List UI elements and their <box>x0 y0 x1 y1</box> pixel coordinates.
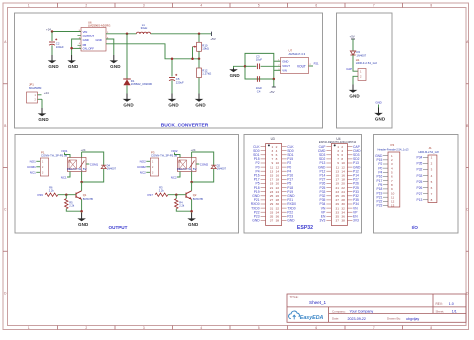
svg-text:3: 3 <box>143 326 145 330</box>
section box OUTPUT <box>15 135 239 234</box>
transistor Q1 BC547B <box>76 191 93 201</box>
net label NO1 at relay <box>62 149 70 158</box>
net label +24 relay supply <box>81 148 86 152</box>
svg-text:5: 5 <box>258 326 260 330</box>
svg-text:NC1: NC1 <box>30 171 36 175</box>
ground under Q1 <box>77 213 89 227</box>
junction base node <box>65 193 68 196</box>
svg-text:Your Company: Your Company <box>350 310 374 314</box>
wire pulldown to emitter <box>176 209 191 212</box>
ground under C2 <box>48 55 60 69</box>
ground under U6 left <box>67 55 79 69</box>
capacitor C2 100uF <box>49 38 64 48</box>
net label NC1 at relay <box>61 172 70 180</box>
svg-text:37: 37 <box>336 219 340 223</box>
wire +24 to U6 VIN <box>52 31 81 33</box>
svg-text:B: B <box>4 124 6 128</box>
svg-text:CONN-TH_3P-P5.08: CONN-TH_3P-P5.08 <box>151 154 178 158</box>
wire H1 pin2 to ground <box>353 76 358 84</box>
svg-text:ON_OFF: ON_OFF <box>83 47 95 51</box>
svg-text:EasyEDA: EasyEDA <box>300 315 324 321</box>
transistor Q2 BC547B <box>186 191 203 201</box>
svg-text:4: 4 <box>200 4 202 8</box>
wire base <box>168 194 186 196</box>
svg-text:AMS1117-3.3: AMS1117-3.3 <box>289 52 306 56</box>
svg-text:+5V: +5V <box>269 90 274 94</box>
header P4 Header-Female-2.54_1x13 <box>378 143 410 208</box>
net label P26 input <box>38 193 44 197</box>
section box ESP32 <box>244 135 362 234</box>
junction AMS gnd rail <box>244 65 247 68</box>
svg-text:MG25MM: MG25MM <box>29 86 42 90</box>
svg-text:TITLE:: TITLE: <box>290 295 299 299</box>
net label NC2 at relay <box>171 172 180 180</box>
svg-text:NC2: NC2 <box>171 175 177 179</box>
svg-text:2: 2 <box>85 326 87 330</box>
capacitor C5 220uF <box>169 74 184 84</box>
svg-text:1.27kΩ: 1.27kΩ <box>202 72 211 76</box>
connector P3 CONN-TH_3P-P5.08 <box>146 150 177 176</box>
svg-text:P27: P27 <box>148 193 154 197</box>
svg-text:HDR-F-2.54_1x2: HDR-F-2.54_1x2 <box>356 61 378 65</box>
net label COM2 at relay <box>196 162 209 166</box>
wire D3 to H1 pin1 <box>353 55 358 71</box>
svg-text:2.2k: 2.2k <box>179 203 185 207</box>
resistor R12 1.27k <box>197 68 212 78</box>
wire R12 bottom <box>198 78 200 94</box>
svg-text:GND: GND <box>375 117 386 122</box>
junction FB divider node <box>198 58 201 61</box>
svg-text:P34: P34 <box>417 156 423 160</box>
wire U7 VOUT to P21 <box>309 65 314 67</box>
header J1 HDR-M-2.54_1x8 <box>419 146 440 203</box>
junction emitter node <box>80 210 83 213</box>
net label CAP <box>346 67 352 71</box>
wire R12 top <box>198 59 200 68</box>
svg-text:VOUT: VOUT <box>282 64 290 68</box>
wire U6 right GND pin to ground <box>106 39 114 55</box>
connector H1 HDR-F-2.54_1x2 <box>356 58 378 81</box>
svg-text:COM2: COM2 <box>137 165 146 169</box>
svg-text:GND: GND <box>78 222 89 227</box>
svg-text:GND: GND <box>168 103 179 108</box>
svg-text:GND: GND <box>110 64 121 69</box>
svg-text:OUTPUT: OUTPUT <box>109 225 128 230</box>
wire C5 vertical <box>171 59 173 94</box>
junction +5V node <box>198 33 201 36</box>
svg-text:VIN: VIN <box>282 69 287 73</box>
svg-text:+5V: +5V <box>350 34 355 38</box>
wire emitter to ground <box>81 199 83 213</box>
connector P1 CONN-TH_3P-P5.08 <box>36 150 67 176</box>
svg-text:HDR-M-2.54_1x8: HDR-M-2.54_1x8 <box>419 150 440 154</box>
svg-text:3V3: 3V3 <box>320 219 326 223</box>
wire gnd arrow to C3 <box>245 65 256 67</box>
svg-text:BUCK_CONVERTER: BUCK_CONVERTER <box>161 122 209 128</box>
header U4 2x19 <box>319 137 357 225</box>
svg-text:Header-Female-2.54_1x13: Header-Female-2.54_1x13 <box>378 147 410 151</box>
title block <box>287 294 466 322</box>
svg-text:RELAY-TH_5V: RELAY-TH_5V <box>177 167 197 171</box>
svg-text:38: 38 <box>341 219 345 223</box>
svg-text:100uF: 100uF <box>56 45 64 49</box>
svg-text:P26: P26 <box>38 193 44 197</box>
ground under H1 <box>349 85 361 99</box>
regulator U6 LM2596S <box>79 20 111 51</box>
svg-text:B: B <box>466 124 468 128</box>
ground under JP1 <box>38 108 50 122</box>
ground under U6 right <box>110 55 122 69</box>
svg-text:GND: GND <box>48 64 59 69</box>
svg-text:4: 4 <box>200 326 202 330</box>
net label P27 input <box>148 193 154 197</box>
section box I/O <box>374 135 459 234</box>
svg-text:2.2k: 2.2k <box>69 203 75 207</box>
ground under D1 <box>123 94 135 108</box>
pin net labels U4 <box>318 145 361 223</box>
junction relay coil / collector <box>190 181 193 184</box>
wire AMS gnd rail loop <box>245 53 274 79</box>
wire pulldown to emitter <box>66 209 81 212</box>
svg-text:+24: +24 <box>44 91 49 95</box>
svg-text:Company:: Company: <box>332 309 346 313</box>
svg-text:BC547B: BC547B <box>193 197 203 201</box>
frame row ticks and letters <box>3 40 469 295</box>
net flag +5V buck output <box>210 32 217 42</box>
svg-text:BC547B: BC547B <box>83 197 93 201</box>
net flag +5V AMS input <box>269 79 276 94</box>
svg-text:1N5822_C82006: 1N5822_C82006 <box>131 82 153 86</box>
svg-text:33uH: 33uH <box>141 26 148 30</box>
junction wiper node <box>191 58 194 61</box>
svg-text:Sheet:: Sheet: <box>436 310 445 314</box>
wire C3 to U7 VOUT <box>261 65 281 67</box>
diode D3 1N4007 <box>350 50 366 57</box>
wire U7 VIN pin <box>274 69 281 71</box>
svg-text:COM2: COM2 <box>200 162 209 166</box>
junction emitter node <box>190 210 193 213</box>
wire +5V to D3 <box>352 39 354 51</box>
wire relay coil +24 loop <box>192 152 214 182</box>
svg-text:GND: GND <box>230 73 241 78</box>
relay U2 RELAY-TH_5V <box>177 158 197 172</box>
svg-text:NO2: NO2 <box>140 160 147 164</box>
ground under R12 <box>195 94 207 108</box>
svg-text:P35: P35 <box>417 162 423 166</box>
capacitor C4 10uF <box>256 76 263 93</box>
svg-text:P25: P25 <box>417 180 423 184</box>
net label GND with power symbol <box>374 100 386 121</box>
net label +24 at JP1 <box>44 91 49 95</box>
svg-text:J1: J1 <box>429 146 433 150</box>
svg-text:38: 38 <box>276 219 280 223</box>
wire JP1 pin2 to ground <box>41 99 43 108</box>
wire U6 FB feedback path <box>106 44 199 59</box>
svg-text:7: 7 <box>373 4 375 8</box>
svg-text:P27: P27 <box>417 192 423 196</box>
net label NO2 at relay <box>172 149 180 158</box>
wire D1 vertical <box>126 34 128 94</box>
junction at C2 top <box>51 30 54 33</box>
svg-text:6: 6 <box>315 326 317 330</box>
svg-text:GND: GND <box>195 103 206 108</box>
svg-text:220uF: 220uF <box>176 80 184 84</box>
svg-text:+5V: +5V <box>210 37 217 41</box>
pin stubs U6 left <box>78 36 82 46</box>
resistor R6 2.2k base <box>45 186 58 197</box>
relay U1 RELAY-TH_5V <box>67 158 87 172</box>
diode D4 1N4007 flyback <box>101 163 116 170</box>
wire U6 GND and ON_OFF to ground <box>72 39 81 55</box>
svg-text:RELAY-TH_5V: RELAY-TH_5V <box>67 167 87 171</box>
wire R10 bottom node <box>198 51 200 59</box>
wire collector <box>191 182 193 191</box>
svg-text:3V3: 3V3 <box>353 219 359 223</box>
svg-text:37: 37 <box>270 219 274 223</box>
svg-text:C4: C4 <box>257 89 261 93</box>
wire base <box>58 194 76 196</box>
svg-text:1: 1 <box>28 326 30 330</box>
svg-text:GND: GND <box>188 222 199 227</box>
svg-text:2.2k: 2.2k <box>49 189 55 193</box>
resistor R4 2.2k pulldown <box>175 195 185 209</box>
svg-text:NC2: NC2 <box>140 171 146 175</box>
header U3 2x19 <box>261 137 287 225</box>
pin net labels P4 <box>375 154 383 208</box>
svg-text:Drawn By:: Drawn By: <box>387 317 401 321</box>
wire C2 vertical <box>51 32 53 56</box>
svg-text:VOUT: VOUT <box>297 65 306 69</box>
capacitor C3 10uF <box>256 55 263 70</box>
net labels NO1 COM1 NC1 at P1 <box>27 160 36 175</box>
svg-text:3: 3 <box>143 4 145 8</box>
svg-text:Q1: Q1 <box>83 193 87 197</box>
svg-text:8: 8 <box>430 4 432 8</box>
section box capacitor/jumper <box>337 13 393 128</box>
svg-text:REV:: REV: <box>436 302 443 306</box>
diode D1 1N5822 <box>123 79 152 86</box>
title block texts <box>290 295 457 321</box>
svg-text:P13: P13 <box>417 198 423 202</box>
svg-text:NO1: NO1 <box>62 149 68 153</box>
svg-text:GND: GND <box>287 219 295 223</box>
svg-text:NO2: NO2 <box>172 149 178 153</box>
inductor L1 33uH <box>136 23 150 34</box>
svg-text:2: 2 <box>85 4 87 8</box>
regulator U7 AMS1117-3.3 <box>278 49 311 74</box>
svg-text:Sheet_1: Sheet_1 <box>309 300 327 305</box>
svg-text:ESP32-DEVKITC-32D-C495744: ESP32-DEVKITC-32D-C495744 <box>319 140 357 144</box>
svg-text:P32: P32 <box>417 168 423 172</box>
svg-text:1.0: 1.0 <box>449 302 454 306</box>
svg-text:13: 13 <box>391 204 395 208</box>
svg-text:7: 7 <box>373 326 375 330</box>
resistor R5 2.2k pulldown <box>65 195 75 209</box>
resistor R3 2.2k base <box>155 186 168 197</box>
net labels NO2 COM2 NC2 at P3 <box>137 160 146 175</box>
junction relay coil / collector <box>80 181 83 184</box>
svg-text:GND: GND <box>38 117 49 122</box>
potentiometer R10 10k <box>193 42 209 59</box>
svg-text:1/1: 1/1 <box>452 310 457 314</box>
svg-text:10kΩ: 10kΩ <box>202 47 209 51</box>
ground at AMS1117 input <box>229 66 245 78</box>
svg-text:8: 8 <box>430 326 432 330</box>
svg-text:P23: P23 <box>377 204 383 208</box>
svg-text:U3: U3 <box>271 137 275 141</box>
svg-text:NC1: NC1 <box>61 175 67 179</box>
wire collector <box>81 182 83 191</box>
svg-text:I/O: I/O <box>412 225 419 230</box>
svg-text:GND: GND <box>68 64 79 69</box>
ground under C5 <box>168 94 180 108</box>
svg-text:P33: P33 <box>417 174 423 178</box>
svg-text:P26: P26 <box>417 186 423 190</box>
wire U6 OUTPUT to L1 and +5V <box>106 33 212 35</box>
svg-text:1N4007: 1N4007 <box>217 167 227 171</box>
EasyEDA logo <box>289 311 324 321</box>
connector JP1 <box>27 83 43 103</box>
ground under Q2 <box>187 213 199 227</box>
svg-text:GND: GND <box>282 60 288 64</box>
svg-text:ubgvijay: ubgvijay <box>406 317 419 321</box>
net label COM1 at relay <box>86 162 99 166</box>
svg-text:GND: GND <box>83 38 89 42</box>
wire U7 GND pin <box>274 60 281 62</box>
svg-text:1: 1 <box>28 4 30 8</box>
diode D2 1N4007 flyback <box>211 163 226 170</box>
net label +24 relay supply <box>191 148 196 152</box>
svg-text:P4: P4 <box>391 143 395 147</box>
svg-text:+24: +24 <box>46 27 51 31</box>
junction diode node <box>126 33 129 36</box>
junction base node <box>175 193 178 196</box>
svg-text:2023-09-22: 2023-09-22 <box>348 317 366 321</box>
svg-text:ESP32: ESP32 <box>297 225 313 231</box>
svg-text:6: 6 <box>315 4 317 8</box>
svg-text:P21: P21 <box>314 61 319 65</box>
svg-text:2.2k: 2.2k <box>159 189 165 193</box>
svg-text:10uF: 10uF <box>256 58 263 62</box>
section box BUCK_CONVERTER <box>15 13 323 128</box>
net flag +5V cap box <box>350 34 356 39</box>
pin net labels U3 <box>251 145 296 223</box>
svg-text:U1: U1 <box>68 159 72 163</box>
pin net labels J1 <box>417 156 423 202</box>
svg-text:GND: GND <box>123 103 134 108</box>
wire relay coil +24 loop <box>82 152 104 182</box>
svg-text:CONN-TH_3P-P5.08: CONN-TH_3P-P5.08 <box>41 154 68 158</box>
svg-text:Q2: Q2 <box>193 193 197 197</box>
svg-text:1N4007: 1N4007 <box>107 167 117 171</box>
svg-text:GND: GND <box>252 219 260 223</box>
junction C5 top <box>171 58 174 61</box>
svg-text:GND: GND <box>96 38 102 42</box>
svg-text:COM1: COM1 <box>27 165 36 169</box>
svg-text:GND: GND <box>349 94 360 99</box>
wire emitter to ground <box>191 199 193 213</box>
svg-text:GND: GND <box>375 100 381 104</box>
svg-text:COM1: COM1 <box>90 162 99 166</box>
net label +24 buck input <box>46 27 51 31</box>
svg-text:Date:: Date: <box>332 317 339 321</box>
svg-text:5: 5 <box>258 4 260 8</box>
svg-text:LM2596S-ADJRG: LM2596S-ADJRG <box>88 24 110 28</box>
svg-text:CAP: CAP <box>346 67 352 71</box>
wire R10 top <box>198 34 200 43</box>
net label P21 <box>314 61 319 65</box>
svg-text:NO1: NO1 <box>30 160 37 164</box>
junction +5V at C4 <box>273 78 276 81</box>
junction U6 gnd/onoff <box>70 47 73 50</box>
svg-text:U2: U2 <box>178 159 182 163</box>
